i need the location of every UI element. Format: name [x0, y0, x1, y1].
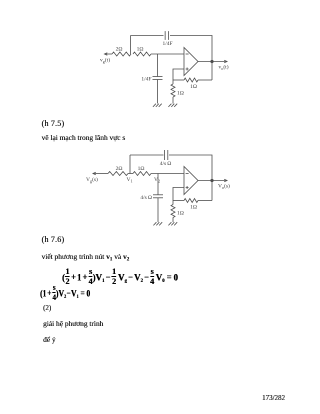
- page number: [262, 395, 285, 402]
- svg-text:1Ω: 1Ω: [177, 91, 184, 97]
- op-amp U2 plus sign: [186, 186, 189, 189]
- wire output node down to feedback resistor circuit 2: [211, 181, 213, 201]
- wire op-amp output circuit 1: [198, 61, 227, 63]
- wire node A up to feedback: [130, 36, 132, 55]
- svg-text:1Ω: 1Ω: [137, 47, 144, 53]
- wire to op-amp inverting input circuit 2: [151, 173, 184, 175]
- op-amp U2 circuit 2: [184, 167, 198, 195]
- text redraw circuit in s domain: [42, 134, 126, 141]
- wire top feedback left circuit 1: [131, 35, 164, 37]
- text solve system of equations: [43, 320, 103, 327]
- output terminal arrow circuit 2: [224, 179, 227, 181]
- op-amp U1 minus sign: [186, 53, 189, 55]
- wire input lead circuit 1: [105, 53, 113, 55]
- resistor R 1ohm feedback circuit 2: [173, 200, 184, 202]
- op-amp U2 minus sign: [186, 173, 189, 175]
- wire shunt capacitor to ground circuit 1: [157, 80, 159, 104]
- input terminal arrow circuit 2: [93, 172, 96, 174]
- svg-text:4/s Ω: 4/s Ω: [160, 161, 172, 167]
- wire top feedback left circuit 2: [130, 154, 164, 156]
- node output junction circuit 1: [210, 60, 213, 63]
- svg-text:1Ω: 1Ω: [190, 84, 197, 90]
- equation node v2: [40, 283, 90, 303]
- text write node equations v1 and v2: [42, 253, 130, 261]
- ground below 1ohm circuit 2: [168, 222, 177, 225]
- svg-text:Vo(s): Vo(s): [218, 183, 230, 191]
- wire top feedback right circuit 2: [169, 155, 212, 181]
- wire node B down to shunt capacitor: [157, 54, 159, 77]
- svg-text:1Ω: 1Ω: [190, 205, 197, 211]
- wire top feedback right circuit 1: [170, 36, 212, 62]
- text note: [43, 336, 56, 343]
- wire 2ohm to node V1: [128, 173, 133, 175]
- svg-text:2Ω: 2Ω: [116, 47, 123, 53]
- wire output node down to feedback resistor circuit 1: [211, 62, 213, 81]
- svg-text:vo(t): vo(t): [219, 64, 229, 72]
- svg-text:4/s Ω: 4/s Ω: [140, 195, 152, 201]
- capacitor 4/s ohm shunt circuit 2: [153, 194, 163, 196]
- wire shunt capacitor to ground circuit 2: [157, 198, 159, 222]
- svg-text:1Ω: 1Ω: [177, 211, 184, 217]
- svg-text:1/4F: 1/4F: [162, 41, 172, 47]
- ground below shunt capacitor circuit 2: [153, 222, 162, 225]
- resistor R 1ohm to ground circuit 1: [172, 80, 174, 84]
- svg-text:V2: V2: [154, 177, 160, 184]
- ground below 1ohm circuit 1: [168, 104, 177, 107]
- capacitor 1/4F feedback circuit 1: [164, 31, 166, 40]
- caption h 7.5: [42, 120, 65, 128]
- wire op-amp noninverting input circuit 1: [173, 69, 184, 80]
- svg-text:Vg(s): Vg(s): [86, 176, 98, 184]
- wire input lead circuit 2: [93, 173, 108, 175]
- wire op-amp output circuit 2: [198, 180, 227, 182]
- svg-text:1Ω: 1Ω: [138, 166, 145, 172]
- label (2): [43, 305, 51, 312]
- wire to op-amp inverting input circuit 1: [151, 53, 184, 55]
- capacitor 4/s ohm feedback circuit 2: [164, 150, 166, 160]
- svg-text:vg(t): vg(t): [100, 57, 110, 65]
- resistor R 1ohm series circuit 1: [133, 52, 151, 56]
- svg-text:V1: V1: [127, 177, 133, 184]
- input terminal arrow circuit 1: [105, 53, 108, 55]
- svg-text:1/4F: 1/4F: [141, 77, 151, 83]
- node V1 wire up to feedback: [129, 155, 131, 174]
- output terminal arrow circuit 1: [224, 60, 227, 62]
- op-amp U1 circuit 1: [184, 48, 198, 76]
- resistor R 2ohm circuit 1: [112, 52, 131, 56]
- resistor R 1ohm series circuit 2: [133, 172, 151, 176]
- ground below shunt capacitor circuit 1: [153, 104, 162, 107]
- resistor R 1ohm to ground circuit 2: [172, 201, 174, 205]
- op-amp U1 plus sign: [186, 68, 189, 71]
- node V2 wire down to shunt capacitor: [157, 174, 159, 195]
- equation node v1: [62, 267, 178, 287]
- capacitor 1/4F shunt circuit 1: [153, 76, 163, 78]
- wire op-amp noninverting input circuit 2: [173, 188, 184, 201]
- caption h 7.6: [42, 236, 65, 244]
- resistor R 2ohm circuit 2: [108, 172, 128, 176]
- node output junction circuit 2: [210, 179, 213, 182]
- resistor R 1ohm feedback circuit 1: [173, 79, 184, 81]
- svg-text:2Ω: 2Ω: [116, 166, 123, 172]
